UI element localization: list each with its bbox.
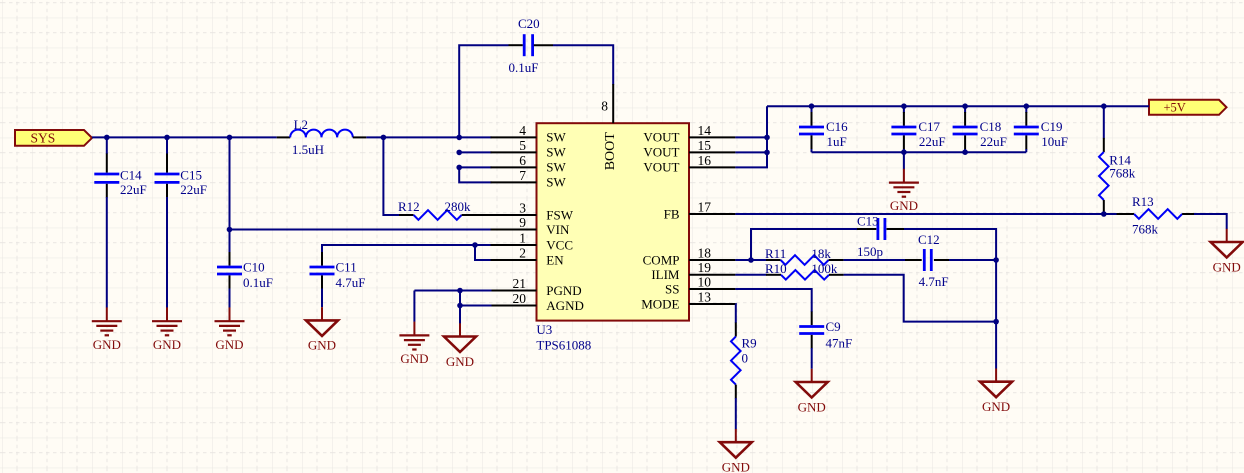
wire C16 lower <box>811 149 813 152</box>
resistor R12 280k <box>398 199 537 220</box>
wire C18 lower <box>964 149 966 152</box>
svg-text:C13: C13 <box>857 214 879 229</box>
wire SYS rail to L2 <box>92 136 277 138</box>
svg-text:C11: C11 <box>336 260 357 275</box>
svg-text:SW: SW <box>546 160 566 175</box>
U3 pin 6 (SW) <box>491 153 567 175</box>
U3 pin 20 (AGND) <box>491 291 584 313</box>
svg-text:3: 3 <box>519 200 526 215</box>
capacitor C20 0.1uF <box>509 16 554 75</box>
U3 pin 15 (VOUT) <box>399 84 1242 473</box>
junction SYS/C10 column <box>227 135 233 141</box>
capacitor C19 10uF <box>1014 112 1068 150</box>
wire C19 lower <box>1025 149 1027 152</box>
junction ILIM ground path <box>993 319 999 325</box>
svg-text:GND: GND <box>890 198 918 213</box>
svg-text:2: 2 <box>519 245 526 260</box>
wire C20 column to SW pins <box>459 167 491 182</box>
junction C20 column / SW6 <box>456 165 462 171</box>
svg-text:VOUT: VOUT <box>643 130 679 145</box>
ground GND at C9 <box>796 369 828 415</box>
wire SW6 stub <box>459 166 491 168</box>
wire R13 to ground <box>1194 214 1227 229</box>
resistor R10 100k <box>765 261 844 280</box>
svg-text:150p: 150p <box>857 244 883 259</box>
port +5V <box>1149 100 1227 115</box>
svg-text:768k: 768k <box>1132 222 1159 237</box>
ground GND at PGND <box>399 322 429 366</box>
svg-text:GND: GND <box>798 399 826 414</box>
U3 pin 9 (VIN) <box>491 215 571 237</box>
wire R14 upper <box>1103 106 1105 138</box>
resistor R13 768k <box>1117 194 1195 237</box>
junction AGND row <box>457 303 463 309</box>
svg-text:VOUT: VOUT <box>643 145 679 160</box>
port SYS <box>15 130 92 146</box>
svg-text:C16: C16 <box>826 119 848 134</box>
svg-text:C18: C18 <box>980 119 1002 134</box>
wire C17 bus to ground <box>903 152 905 169</box>
svg-text:GND: GND <box>722 460 750 473</box>
svg-text:R13: R13 <box>1132 194 1154 209</box>
svg-text:1: 1 <box>519 230 526 245</box>
svg-text:10uF: 10uF <box>1041 134 1068 149</box>
svg-text:SS: SS <box>665 281 679 296</box>
junction VIN rail <box>227 227 233 233</box>
ground GND at C11 <box>306 307 338 353</box>
svg-text:GND: GND <box>308 338 336 353</box>
svg-text:C14: C14 <box>120 167 142 182</box>
wire C17 upper <box>903 106 905 113</box>
svg-text:14: 14 <box>698 123 712 138</box>
U3 pin 2 (EN) <box>491 245 565 267</box>
ground GND at C10 <box>215 307 245 351</box>
svg-text:C17: C17 <box>918 119 940 134</box>
svg-text:FB: FB <box>664 206 680 221</box>
svg-text:1.5uH: 1.5uH <box>292 142 324 157</box>
wire C13 right to ground column <box>904 229 996 260</box>
svg-text:19: 19 <box>698 260 712 275</box>
wire C15 upper <box>166 137 168 154</box>
junction VOUT14 <box>764 135 770 141</box>
svg-text:U3: U3 <box>536 322 552 337</box>
svg-text:7: 7 <box>519 168 526 183</box>
svg-text:13: 13 <box>698 289 712 304</box>
junction PGND/AGND column <box>457 288 463 294</box>
svg-text:R10: R10 <box>765 261 787 276</box>
U3 pin 5 (SW) <box>491 138 567 160</box>
wire SYS rail down to R12 <box>383 137 399 215</box>
wire C10 lower <box>229 289 231 308</box>
svg-text:PGND: PGND <box>546 283 581 298</box>
wire C11 lower <box>321 289 323 308</box>
capacitor C11 4.7uF <box>310 252 366 290</box>
U3 pin 17 (FB) <box>399 84 1242 473</box>
svg-text:22uF: 22uF <box>180 182 207 197</box>
junction compensation ground column <box>993 257 999 263</box>
svg-text:4.7nF: 4.7nF <box>919 274 949 289</box>
svg-text:10: 10 <box>698 274 712 289</box>
capacitor C9 47nF <box>799 312 852 351</box>
wire C19 upper <box>1025 106 1027 113</box>
svg-text:SW: SW <box>546 145 566 160</box>
capacitor C15 22uF <box>155 154 208 198</box>
svg-text:1uF: 1uF <box>827 134 847 149</box>
svg-text:16: 16 <box>698 153 712 168</box>
capacitor C13 150p <box>857 214 905 259</box>
junction COMP/C13 <box>748 257 754 263</box>
junction rail/C17 <box>901 103 907 109</box>
svg-text:FSW: FSW <box>546 207 573 222</box>
svg-text:+5V: +5V <box>1164 100 1186 114</box>
svg-text:C12: C12 <box>918 232 940 247</box>
wire SS pin10 to C9 <box>735 289 811 312</box>
capacitor C16 1uF <box>799 112 848 150</box>
junction SYS/C14 <box>104 135 110 141</box>
U3 pin 14 (VOUT) <box>399 84 1242 473</box>
wire VOUT pin16 stub to collector <box>735 106 767 167</box>
svg-text:TPS61088: TPS61088 <box>536 338 591 353</box>
svg-text:0.1uF: 0.1uF <box>509 60 539 75</box>
ground GND at R9 <box>720 429 752 473</box>
wire VOUT pin15 stub <box>735 151 767 153</box>
junction rail/C16 <box>809 103 815 109</box>
wire AGND stub <box>460 305 492 307</box>
svg-text:GND: GND <box>153 337 181 352</box>
svg-text:MODE: MODE <box>641 296 679 311</box>
capacitor C14 22uF <box>94 154 146 198</box>
ground GND at R13 <box>1211 229 1243 274</box>
wire COMP pin18 to R11 <box>735 259 766 261</box>
svg-text:C19: C19 <box>1041 119 1063 134</box>
svg-text:AGND: AGND <box>546 298 584 313</box>
svg-text:100k: 100k <box>811 261 838 276</box>
svg-text:C15: C15 <box>180 167 202 182</box>
svg-text:4.7uF: 4.7uF <box>336 275 366 290</box>
resistor R9 0 <box>731 323 757 399</box>
svg-text:ILIM: ILIM <box>651 267 680 282</box>
svg-text:280k: 280k <box>445 199 472 214</box>
junction VOUT15 <box>764 150 770 156</box>
svg-text:COMP: COMP <box>643 252 680 267</box>
junction rail/C18 <box>962 103 968 109</box>
wire C15 lower <box>166 197 168 308</box>
ground GND at C15 <box>152 307 182 351</box>
U3 pin 4 (SW) <box>491 123 567 145</box>
wire PGND elbow down <box>413 291 415 322</box>
svg-text:VCC: VCC <box>546 237 573 252</box>
wire R11 to C12 <box>844 259 906 261</box>
wire VIN rail to pin 9 <box>230 229 492 231</box>
wire C20 right to BOOT <box>553 45 613 84</box>
svg-text:17: 17 <box>698 199 712 214</box>
resistor R11 18k <box>765 246 844 265</box>
capacitor C10 0.1uF <box>217 252 273 290</box>
wire C18 upper <box>964 106 966 113</box>
U3 pin 8 (BOOT) <box>601 84 618 170</box>
wire AGND column <box>459 291 461 324</box>
svg-text:C9: C9 <box>826 319 841 334</box>
svg-text:GND: GND <box>93 337 121 352</box>
wire ground column down <box>995 260 997 369</box>
svg-text:20: 20 <box>513 291 527 306</box>
svg-text:5: 5 <box>519 138 526 153</box>
junction rail/R14 <box>1101 103 1107 109</box>
wire C13 left riser <box>751 229 858 260</box>
svg-text:EN: EN <box>546 252 564 267</box>
junction SYS/R12 column <box>381 135 387 141</box>
svg-text:18k: 18k <box>811 246 831 261</box>
svg-text:21: 21 <box>513 276 527 291</box>
svg-text:SW: SW <box>546 175 566 190</box>
svg-text:GND: GND <box>400 351 428 366</box>
wire L2 to pin 4 <box>366 136 491 138</box>
junction bus/C18 <box>962 149 968 155</box>
svg-text:SW: SW <box>546 130 566 145</box>
wire SW5 stub <box>459 151 491 153</box>
junction rail/C19 <box>1024 103 1030 109</box>
inductor L2 1.5uH <box>277 117 367 157</box>
capacitor C18 22uF <box>953 112 1007 150</box>
wire EN drop to pin 2 <box>475 245 492 260</box>
wire output cap ground bus <box>812 151 1027 153</box>
wire C16 upper <box>811 106 813 113</box>
wire R10 to ground path <box>844 275 997 322</box>
junction bus/C17 <box>901 149 907 155</box>
svg-text:768k: 768k <box>1109 166 1136 181</box>
junction VCC/EN <box>472 242 478 248</box>
svg-text:4: 4 <box>519 123 526 138</box>
U3 pin 21 (PGND) <box>491 276 582 298</box>
svg-text:GND: GND <box>1213 259 1241 274</box>
svg-text:GND: GND <box>446 354 474 369</box>
U3 pin 3 (FSW) <box>491 200 574 222</box>
junction C20 column / SYS rail <box>456 135 462 141</box>
svg-text:R11: R11 <box>765 246 786 261</box>
ground GND at C14 <box>92 307 122 351</box>
svg-text:GND: GND <box>215 337 243 352</box>
svg-text:C10: C10 <box>243 260 265 275</box>
ground GND at compensation <box>980 369 1012 415</box>
junction FB/R14 <box>1101 211 1107 217</box>
wire +5V output rail <box>767 105 1149 107</box>
wire C9 lower <box>811 348 813 369</box>
wire C12 to ground column <box>949 259 996 261</box>
svg-text:9: 9 <box>519 215 526 230</box>
svg-text:GND: GND <box>982 399 1010 414</box>
U3 pin 13 (MODE) <box>399 84 1242 473</box>
wire FB to R13 <box>735 213 1117 215</box>
svg-text:VOUT: VOUT <box>643 160 679 175</box>
junction SYS/C15 <box>164 135 170 141</box>
U3 pin 16 (VOUT) <box>399 84 1242 473</box>
wire C17 lower <box>903 149 905 152</box>
svg-text:0.1uF: 0.1uF <box>243 275 273 290</box>
svg-text:R9: R9 <box>742 336 757 351</box>
U3 pin 18 (COMP) <box>399 84 1242 473</box>
svg-text:22uF: 22uF <box>980 134 1007 149</box>
wire C14 upper <box>106 137 108 154</box>
U3 pin 7 (SW) <box>491 168 567 190</box>
svg-text:L2: L2 <box>294 117 308 132</box>
capacitor C17 22uF <box>891 112 945 150</box>
wire R9 lower <box>735 398 737 429</box>
svg-text:8: 8 <box>601 99 608 114</box>
op-amp U3 TPS61088 body <box>536 123 689 353</box>
wire VOUT pin14 stub <box>735 136 767 138</box>
svg-text:22uF: 22uF <box>919 134 946 149</box>
junction C20 column / SW5 <box>456 150 462 156</box>
wire C14 lower <box>106 197 108 308</box>
svg-text:SYS: SYS <box>31 131 56 146</box>
svg-text:18: 18 <box>698 245 712 260</box>
wire PGND pin21 left <box>414 290 491 292</box>
ground GND at AGND <box>444 323 476 369</box>
ground GND at C17 <box>889 169 919 213</box>
capacitor C12 4.7nF <box>905 232 950 289</box>
svg-text:C20: C20 <box>518 16 540 31</box>
svg-text:BOOT: BOOT <box>603 132 618 171</box>
svg-text:VIN: VIN <box>546 222 570 237</box>
svg-text:R12: R12 <box>398 199 420 214</box>
wire MODE pin13 to R9 <box>734 304 736 323</box>
wire VCC net elbow to pin 1 <box>322 245 492 253</box>
svg-text:47nF: 47nF <box>826 336 853 351</box>
resistor R14 768k <box>1099 138 1136 214</box>
U3 pin 19 (ILIM) <box>399 84 1242 473</box>
wire C20 left column <box>459 45 508 137</box>
wire ILIM pin19 to R10 <box>735 274 766 276</box>
svg-text:15: 15 <box>698 138 712 153</box>
U3 pin 10 (SS) <box>399 84 1242 473</box>
svg-text:22uF: 22uF <box>120 182 147 197</box>
U3 pin 1 (VCC) <box>491 230 574 252</box>
svg-text:0: 0 <box>742 351 749 366</box>
wire SYS rail down to VIN rail <box>229 137 231 252</box>
svg-text:6: 6 <box>519 153 526 168</box>
